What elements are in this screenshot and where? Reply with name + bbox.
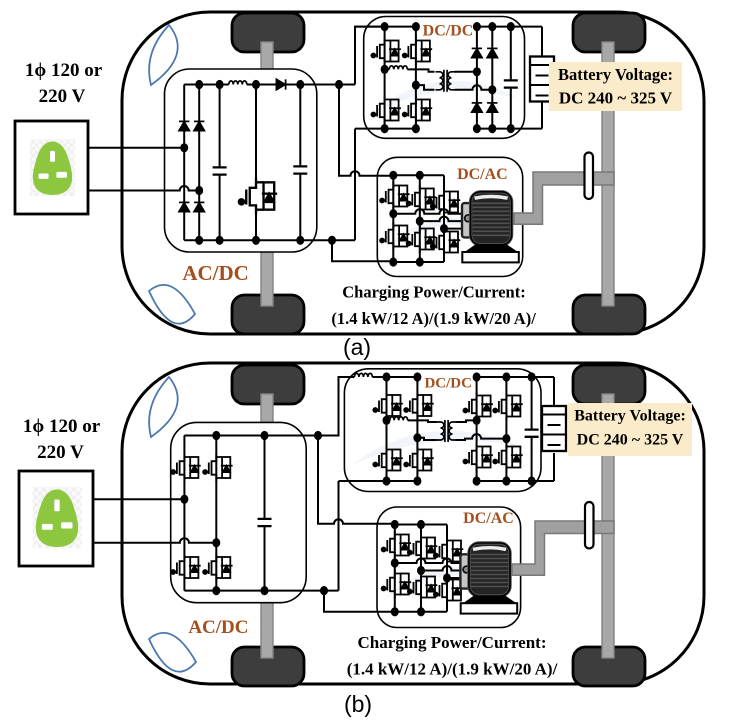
transistor Q22 (b) xyxy=(463,443,493,471)
shading swoosh DC/DC (b) xyxy=(352,431,530,465)
wire bridge leg1 (b) xyxy=(183,436,185,591)
wire leg2 to transformer primary return (b) xyxy=(417,438,436,440)
headlight crescent bottom-left (b) xyxy=(149,633,196,672)
wire transformer secondary bottom with hop (a) xyxy=(455,85,493,90)
node junction xyxy=(412,22,420,31)
differential disc (b) xyxy=(585,502,594,549)
node junction xyxy=(502,476,510,485)
node junction xyxy=(417,607,425,616)
node phase A (b) xyxy=(391,558,399,567)
node junction xyxy=(252,80,260,89)
svg-text:(1.4 kW/12 A)/(1.9 kW/20 A)/: (1.4 kW/12 A)/(1.9 kW/20 A)/ xyxy=(331,309,536,328)
wire inverter buses (b) xyxy=(395,525,447,612)
node junction xyxy=(473,22,481,31)
wire output bridge leg1 (a) xyxy=(476,27,478,129)
wire boost switch leads (a) xyxy=(255,85,257,241)
svg-text:Charging Power/Current:: Charging Power/Current: xyxy=(357,633,546,652)
node junction xyxy=(417,520,425,529)
svg-text:Charging Power/Current:: Charging Power/Current: xyxy=(342,283,525,302)
transistor Q21 (b) xyxy=(493,392,523,420)
transistor Q10 (a) xyxy=(407,225,437,253)
transistor Q17 (b) xyxy=(404,392,434,420)
wheel rear-left (b) xyxy=(232,647,304,686)
transistor Q15 (b) xyxy=(203,554,233,582)
node AC in top (a) xyxy=(180,143,188,152)
svg-text:AC/DC: AC/DC xyxy=(188,617,248,638)
transistor Q6 (a) xyxy=(380,182,410,210)
motor M (b) xyxy=(460,543,517,614)
wire HF bridge leg2 (a) xyxy=(415,27,417,129)
wire DC/DC output-side bottom rail (a) xyxy=(477,128,542,130)
wire capacitor C5 leads (b) xyxy=(531,377,533,481)
node junction xyxy=(296,80,304,89)
wire DAB leg1 (b) xyxy=(386,377,388,481)
headlight crescent bottom-left (a) xyxy=(149,285,195,324)
wire output bridge leg2 (a) xyxy=(491,27,493,129)
wire AC/DC to DC/DC top (b) xyxy=(318,377,354,436)
wire DC bus top rail (a) xyxy=(184,84,355,86)
node junction xyxy=(195,80,203,89)
node junction xyxy=(416,257,424,266)
diode D6 (a) xyxy=(472,48,482,57)
wire AC/DC to DC/DC top (a) xyxy=(355,27,385,85)
transistor Q26 (b) xyxy=(434,537,464,565)
wire capacitor C3 leads (a) xyxy=(510,27,512,129)
wire AC input top (a) xyxy=(88,147,184,149)
svg-text:DC/AC: DC/AC xyxy=(463,510,514,527)
transistor Q12 (b) xyxy=(171,454,201,482)
wire inverter buses (a) xyxy=(393,175,444,262)
wire phase B to motor (a) xyxy=(420,217,462,222)
capacitor C2 (a) xyxy=(293,166,307,173)
node junction xyxy=(261,431,269,440)
node secondary top node (a) xyxy=(473,67,481,76)
node phase C (a) xyxy=(440,224,448,233)
transformer T2 (b) xyxy=(437,420,457,442)
wire DAB leg4 (b) xyxy=(505,377,507,481)
svg-text:220 V: 220 V xyxy=(37,442,84,463)
node junction xyxy=(391,520,399,529)
svg-text:(a): (a) xyxy=(343,334,371,360)
wire phase A to motor (a) xyxy=(393,209,462,214)
node junction xyxy=(389,257,397,266)
rear axle (a) xyxy=(602,42,614,306)
wire AC input bottom with hop (b) xyxy=(93,538,216,543)
front axle (b) xyxy=(261,394,273,658)
wire inverter leg2 (b) xyxy=(420,525,422,612)
node AC in top (b) xyxy=(180,495,188,504)
headlight crescent top-left (a) xyxy=(149,25,178,85)
drive shaft (a) xyxy=(514,172,614,224)
wire DC bus bottom rail + DC/DC return (a) xyxy=(184,129,355,241)
node junction xyxy=(473,124,481,133)
wire to series inductor (b) xyxy=(387,419,390,421)
node junction xyxy=(195,236,203,245)
wire DAB leg3 (b) xyxy=(476,377,478,481)
wire DC bus top rail (b) xyxy=(184,435,318,437)
capacitor C5 (b) xyxy=(525,430,539,437)
transistor Q1 boost switch (a) xyxy=(239,178,277,214)
wire inductor to transformer primary (a) xyxy=(407,69,434,71)
wire battery leads (b) xyxy=(553,377,555,481)
transistor Q23 (b) xyxy=(493,443,523,471)
shading swoosh DC/AC (b) xyxy=(383,568,510,600)
svg-text:Battery Voltage:: Battery Voltage: xyxy=(574,408,686,425)
DC/DC converter block border (a) xyxy=(364,17,525,139)
wire DC/DC output-side top rail (a) xyxy=(477,26,542,28)
transistor Q20 (b) xyxy=(463,392,493,420)
shading swoosh DC/DC (a) xyxy=(370,81,520,115)
node junction xyxy=(391,607,399,616)
wire transformer secondary bottom with hop (b) xyxy=(457,434,507,440)
node DC bus tap (a) xyxy=(335,80,343,89)
wire DC/DC input-side top rail (a) xyxy=(355,26,416,28)
wall socket plug icon (b) xyxy=(33,487,82,548)
motor M (a) xyxy=(462,192,519,263)
node junction xyxy=(216,236,224,245)
node phase B (a) xyxy=(416,217,424,226)
node junction xyxy=(413,476,421,485)
drive shaft (b) xyxy=(512,521,614,575)
wire DC/DC input-side bottom rail (a) xyxy=(355,128,416,130)
capacitor C1 (a) xyxy=(213,167,227,174)
wire DC bus to DC/AC top with hop (a) xyxy=(339,85,393,176)
transistor Q28 (b) xyxy=(408,573,438,601)
differential disc (a) xyxy=(585,153,594,200)
inductor series L4 (b) xyxy=(390,417,408,421)
transistor Q19 (b) xyxy=(404,446,434,474)
car body outline (a) xyxy=(122,12,704,334)
node bottom bus tap (a) xyxy=(328,236,336,245)
transformer T1 (a) xyxy=(436,70,456,92)
wire inverter leg3 (b) xyxy=(446,525,448,612)
wire DC bus to DC/AC top with hop (b) xyxy=(318,436,395,524)
rear axle (b) xyxy=(602,394,614,658)
node junction xyxy=(212,586,220,595)
wire inductor to transformer primary (b) xyxy=(408,420,437,422)
node DC bus tap (b) xyxy=(314,431,322,440)
svg-text:DC 240 ~ 325 V: DC 240 ~ 325 V xyxy=(577,432,684,449)
transistor Q5 (a) xyxy=(403,96,433,124)
node junction xyxy=(488,22,496,31)
transistor Q3 (a) xyxy=(403,37,433,65)
node junction xyxy=(528,476,536,485)
node secondary top node (b) xyxy=(473,416,481,425)
svg-text:(1.4 kW/12 A)/(1.9 kW/20 A)/: (1.4 kW/12 A)/(1.9 kW/20 A)/ xyxy=(347,660,558,679)
wire rectifier leg2 (a) xyxy=(198,85,200,241)
node junction xyxy=(389,171,397,180)
wire DAB input-side top rail (b) xyxy=(372,376,417,378)
node junction xyxy=(416,171,424,180)
node junction xyxy=(473,476,481,485)
wire DC bus to DC/AC bottom (a) xyxy=(332,240,393,261)
shading swoosh DC/AC (a) xyxy=(383,218,510,250)
node junction xyxy=(473,372,481,381)
node junction xyxy=(381,22,389,31)
wheel rear-right (a) xyxy=(573,295,645,334)
node junction xyxy=(502,372,510,381)
wheel rear-right (b) xyxy=(573,647,645,686)
svg-text:DC/DC: DC/DC xyxy=(423,22,474,39)
transistor Q7 (a) xyxy=(407,185,437,213)
node junction xyxy=(412,124,420,133)
node AC in bottom (b) xyxy=(212,538,220,547)
node junction xyxy=(413,372,421,381)
transistor Q24 (b) xyxy=(382,531,412,559)
diode D1 bridge (a) xyxy=(179,121,189,130)
node junction xyxy=(488,124,496,133)
svg-text:1ϕ 120 or: 1ϕ 120 or xyxy=(25,60,103,81)
DC/AC inverter block border (a) xyxy=(377,157,522,276)
wire inverter leg1 (b) xyxy=(394,525,396,612)
wire battery leads (a) xyxy=(541,27,543,129)
wheel rear-left (a) xyxy=(232,295,304,334)
wire DAB output-side bottom rail (b) xyxy=(477,480,554,482)
capacitor C4 (b) xyxy=(258,519,272,526)
node phase A (a) xyxy=(389,209,397,218)
transistor Q18 (b) xyxy=(373,446,403,474)
transistor Q16 (b) xyxy=(373,392,403,420)
diode D8 (a) xyxy=(472,103,482,112)
svg-text:(b): (b) xyxy=(344,691,372,717)
node junction xyxy=(383,372,391,381)
transistor Q11 (a) xyxy=(431,228,461,256)
wire rectifier leg1 (a) xyxy=(183,85,185,241)
svg-text:220 V: 220 V xyxy=(39,86,86,107)
node junction xyxy=(252,236,260,245)
node junction xyxy=(383,476,391,485)
diode D2 bridge (a) xyxy=(194,121,204,130)
wire HF bridge leg1 (a) xyxy=(384,27,386,129)
node junction xyxy=(507,22,515,31)
node junction xyxy=(528,372,536,381)
inductor boost L (a) xyxy=(229,81,247,85)
capacitor C3 (a) xyxy=(504,80,518,87)
wheel front-left (b) xyxy=(232,365,304,404)
wire phase C to motor (b) xyxy=(447,577,461,579)
wire DAB input-side bottom rail (b) xyxy=(339,480,418,482)
svg-text:1ϕ 120 or: 1ϕ 120 or xyxy=(23,416,101,437)
diode D7 (a) xyxy=(487,48,497,57)
svg-text:DC/DC: DC/DC xyxy=(424,376,472,392)
node DAB leg1 mid (b) xyxy=(383,416,391,425)
node secondary bottom node (a) xyxy=(488,85,496,94)
node junction xyxy=(212,431,220,440)
transistor Q27 (b) xyxy=(382,570,412,598)
car body outline (b) xyxy=(122,363,704,684)
node phase B (b) xyxy=(417,566,425,575)
node AC in bottom (a) xyxy=(195,186,203,195)
wall outlet box (b) xyxy=(19,471,93,566)
svg-text:DC/AC: DC/AC xyxy=(457,166,508,183)
node junction xyxy=(507,124,515,133)
node phase C (b) xyxy=(443,573,451,582)
wire DAB leg2 (b) xyxy=(416,377,418,481)
transistor Q14 (b) xyxy=(171,554,201,582)
wheel front-left (a) xyxy=(232,13,304,52)
wire transformer secondary top (b) xyxy=(457,420,477,422)
wall outlet box (a) xyxy=(15,121,88,214)
wall socket plug icon (a) xyxy=(30,139,75,196)
svg-text:Battery Voltage:: Battery Voltage: xyxy=(558,65,673,84)
diode D4 bridge (a) xyxy=(194,202,204,211)
node junction xyxy=(261,586,269,595)
diode boost D5 (a) xyxy=(276,79,285,89)
transistor Q9 (a) xyxy=(380,222,410,250)
wire phase B to motor (b) xyxy=(421,566,461,571)
transistor Q29 (b) xyxy=(434,576,464,604)
battery voltage label background (a) xyxy=(549,62,682,111)
svg-text:DC 240 ~ 325 V: DC 240 ~ 325 V xyxy=(559,89,673,108)
node bottom bus tap (b) xyxy=(320,586,328,595)
svg-text:AC/DC: AC/DC xyxy=(182,261,249,285)
transistor Q25 (b) xyxy=(408,534,438,562)
wheel front-right (b) xyxy=(573,365,645,404)
wire AC input top (b) xyxy=(93,498,184,500)
wire leg2 to transformer primary return (a) xyxy=(416,85,435,90)
wire capacitor C4 leads (b) xyxy=(264,436,266,591)
transistor Q4 (a) xyxy=(371,96,401,124)
node secondary bottom node (b) xyxy=(502,434,510,443)
wire inverter leg3 (a) xyxy=(443,175,445,262)
battery (b) xyxy=(542,406,566,451)
inductor series L2 (a) xyxy=(389,66,407,70)
battery voltage label background (b) xyxy=(568,403,692,456)
transistor Q13 (b) xyxy=(203,454,233,482)
wire DC bus bottom rail + DC/DC return (b) xyxy=(184,481,338,591)
headlight crescent top-left (b) xyxy=(149,377,178,437)
node leg1 mid (a) xyxy=(381,65,389,74)
wheel front-right (a) xyxy=(573,13,645,52)
transistor Q2 (a) xyxy=(371,37,401,65)
diode D9 (a) xyxy=(487,103,497,112)
AC/DC converter block border (b) xyxy=(171,422,307,602)
wire capacitor C1 leads (a) xyxy=(219,85,221,241)
inductor input L3 (b) xyxy=(354,373,372,377)
wire phase C to motor (a) xyxy=(444,228,462,230)
wire DC bus to DC/AC bottom (b) xyxy=(324,591,395,612)
node DAB leg2 mid (b) xyxy=(413,433,421,442)
front axle (a) xyxy=(261,42,273,306)
wire AC input bottom with hop (a) xyxy=(88,186,199,191)
diode D3 bridge (a) xyxy=(179,202,189,211)
node junction xyxy=(381,124,389,133)
node junction xyxy=(296,236,304,245)
DC/AC inverter block border (b) xyxy=(377,507,521,628)
wire bridge leg2 (b) xyxy=(215,436,217,591)
node junction xyxy=(216,80,224,89)
node leg2 mid (a) xyxy=(412,81,420,90)
wire to series inductor (a) xyxy=(385,68,390,70)
DC/DC converter block border (b) xyxy=(344,369,541,492)
wire transformer secondary top (a) xyxy=(455,71,477,73)
wire phase A to motor (b) xyxy=(395,559,461,564)
battery (a) xyxy=(530,57,554,102)
AC/DC converter block border (a) xyxy=(165,69,317,252)
wire capacitor C2 leads (a) xyxy=(299,85,301,241)
wire DAB output-side top rail (b) xyxy=(477,376,554,378)
transistor Q8 (a) xyxy=(431,188,461,216)
wire inverter leg1 (a) xyxy=(392,175,394,262)
wire inverter leg2 (a) xyxy=(419,175,421,262)
